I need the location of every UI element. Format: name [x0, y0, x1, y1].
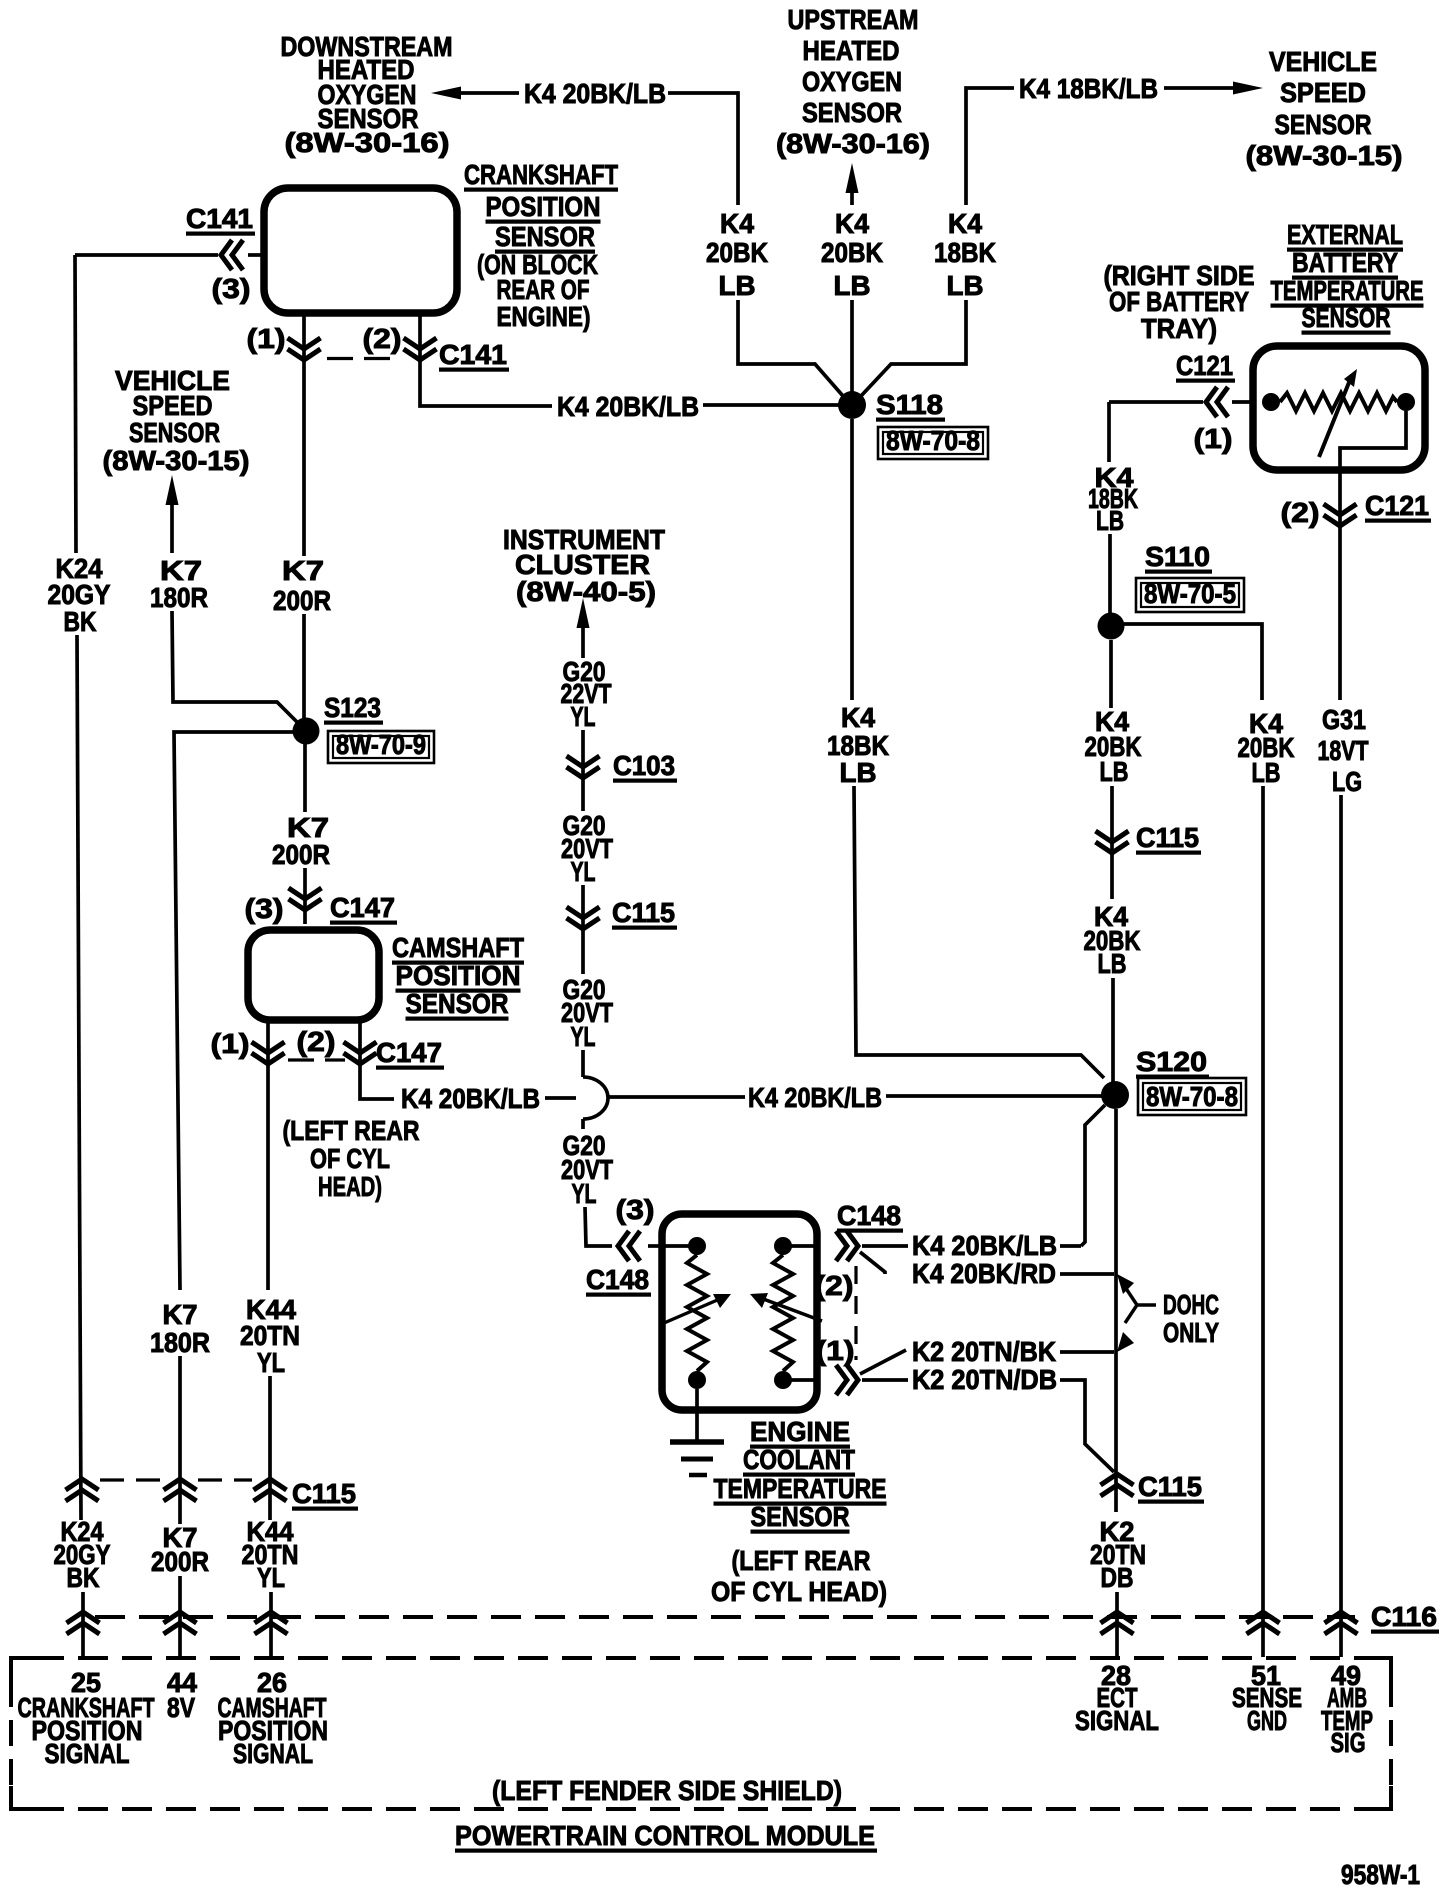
- svg-text:K2 20TN/BK: K2 20TN/BK: [912, 1336, 1056, 1367]
- wire ECT row2 diagonal: [860, 1252, 885, 1274]
- wire batt temp left: [1109, 400, 1203, 404]
- wire K44 20TN YL to C115: [268, 1376, 272, 1520]
- svg-text:18VT: 18VT: [1318, 735, 1369, 766]
- label K7 200R lower: [151, 1522, 209, 1577]
- svg-text:SIGNAL: SIGNAL: [233, 1738, 313, 1769]
- svg-text:POSITION: POSITION: [486, 191, 601, 222]
- ECT terminal top-right: [774, 1237, 792, 1255]
- external battery temperature sensor body: [1253, 346, 1425, 470]
- svg-text:C115: C115: [292, 1478, 356, 1509]
- thermistor arrow (battery sensor): [1319, 369, 1357, 457]
- svg-text:K4 20BK/LB: K4 20BK/LB: [401, 1083, 540, 1114]
- wire G20 to C103: [581, 730, 585, 811]
- svg-text:LB: LB: [840, 757, 877, 788]
- label G31 18VT LG upper: [1318, 704, 1369, 797]
- splice S123: [293, 718, 320, 745]
- wire upstream column into splice S118: [850, 300, 854, 393]
- label K24 20GY BK lower: [54, 1516, 111, 1593]
- reference box 8W-70-8 (S118): [878, 425, 988, 459]
- label G20 20VT YL (2): [561, 974, 613, 1052]
- svg-text:K4: K4: [720, 208, 754, 239]
- svg-text:958W-1: 958W-1: [1341, 1859, 1420, 1890]
- svg-text:K4 20BK/RD: K4 20BK/RD: [912, 1258, 1056, 1289]
- svg-text:GND: GND: [1247, 1705, 1287, 1736]
- svg-text:8W-70-8: 8W-70-8: [1146, 1081, 1238, 1112]
- svg-text:(3): (3): [616, 1194, 655, 1225]
- svg-text:20BK: 20BK: [821, 237, 883, 268]
- engine coolant temperature sensor body: [662, 1214, 817, 1410]
- connector C115 chevrons (K7): [164, 1479, 197, 1501]
- svg-text:(8W-30-15): (8W-30-15): [103, 445, 250, 476]
- svg-text:BK: BK: [64, 606, 97, 637]
- svg-text:K2 20TN/DB: K2 20TN/DB: [912, 1364, 1057, 1395]
- connector C148 pin 3 chevrons: [618, 1231, 640, 1261]
- svg-text:180R: 180R: [150, 1327, 210, 1358]
- battery sensor terminal right: [1397, 393, 1415, 411]
- svg-text:LB: LB: [1252, 757, 1281, 788]
- svg-text:BK: BK: [67, 1562, 100, 1593]
- connector C103 chevrons: [567, 756, 600, 778]
- svg-text:C141: C141: [439, 339, 507, 370]
- wire K7 180R down from S123: [174, 732, 293, 1290]
- svg-text:(1): (1): [1194, 423, 1233, 454]
- svg-text:SENSOR: SENSOR: [495, 221, 595, 252]
- svg-text:ENGINE: ENGINE: [750, 1416, 850, 1447]
- wire K4 20BK/LB downstream vertical: [668, 93, 738, 205]
- connector C116 chevrons (K24): [67, 1612, 100, 1634]
- svg-text:CAMSHAFT: CAMSHAFT: [392, 932, 524, 963]
- svg-text:200R: 200R: [272, 839, 330, 870]
- wire S120 down (DOHC line): [1114, 1109, 1118, 1512]
- wire K4 20BK/LB mid segment 2: [608, 1095, 745, 1099]
- svg-text:180R: 180R: [150, 582, 208, 613]
- dashed connector line C116: [95, 1615, 1355, 1619]
- svg-text:YL: YL: [572, 1178, 597, 1209]
- wire G20 22VT YL upper: [581, 627, 585, 658]
- label crankshaft position sensor title: [464, 159, 618, 332]
- wire K24 to C116: [81, 1592, 85, 1657]
- dashed link between C147 pins: [288, 1058, 345, 1061]
- wire K4 20BK LB to C115 (S110 col): [1110, 786, 1114, 899]
- connector C121 pin 1 chevrons: [1206, 387, 1228, 417]
- connector C147 pin 2 chevrons: [344, 1042, 377, 1064]
- svg-text:TEMPERATURE: TEMPERATURE: [714, 1473, 887, 1504]
- connector C116 chevrons (K44): [255, 1612, 288, 1634]
- svg-text:DOHC: DOHC: [1163, 1289, 1219, 1320]
- wire ECT row1 right seg: [1060, 1244, 1081, 1248]
- wire K4 18BK/LB vertical: [966, 88, 1014, 205]
- svg-text:G31: G31: [1322, 704, 1366, 735]
- svg-text:(8W-30-15): (8W-30-15): [1246, 140, 1403, 171]
- svg-text:8W-70-5: 8W-70-5: [1144, 578, 1236, 609]
- ground symbol: [670, 1442, 724, 1475]
- svg-text:LB: LB: [947, 270, 984, 301]
- svg-text:(8W-30-16): (8W-30-16): [776, 128, 930, 159]
- svg-text:8V: 8V: [167, 1692, 195, 1723]
- svg-text:K4 20BK/LB: K4 20BK/LB: [748, 1082, 882, 1113]
- svg-text:K4 20BK/LB: K4 20BK/LB: [524, 78, 666, 109]
- svg-text:(LEFT REAR: (LEFT REAR: [732, 1545, 871, 1576]
- svg-text:C121: C121: [1176, 350, 1233, 381]
- label K4 20BK LB (above S120): [1084, 901, 1141, 979]
- wire ECT row1 left seg: [862, 1244, 908, 1248]
- wire ECT internal top-right: [791, 1244, 817, 1248]
- svg-text:HEAD): HEAD): [318, 1171, 382, 1202]
- wire ECT internal bottom-right: [791, 1378, 817, 1382]
- svg-text:SENSOR: SENSOR: [129, 417, 220, 448]
- svg-text:(8W-30-16): (8W-30-16): [285, 127, 450, 158]
- battery sensor terminal left: [1262, 393, 1280, 411]
- svg-text:S110: S110: [1145, 541, 1210, 572]
- label downstream heated oxygen sensor: [281, 31, 453, 158]
- svg-text:SENSOR: SENSOR: [406, 988, 509, 1019]
- svg-text:8W-70-9: 8W-70-9: [336, 729, 426, 760]
- wire K7 200R below S123: [303, 744, 307, 812]
- wire into ECT box pin 3: [648, 1244, 662, 1248]
- connector C141 pin 1 chevrons: [288, 338, 321, 360]
- svg-text:OF CYL HEAD): OF CYL HEAD): [711, 1576, 887, 1607]
- label G20 20VT YL (1): [561, 810, 613, 887]
- svg-text:K4: K4: [948, 208, 982, 239]
- label K44 20TN YL upper: [240, 1294, 300, 1378]
- label K7 180R lower: [150, 1299, 210, 1358]
- label K4 20BK LB column middle: [821, 208, 883, 301]
- wire K44 to C116: [269, 1592, 273, 1657]
- wire G20 hop arc: [583, 1077, 608, 1119]
- svg-text:(2): (2): [1281, 497, 1320, 528]
- svg-text:EXTERNAL: EXTERNAL: [1287, 219, 1403, 250]
- svg-text:(LEFT FENDER SIDE SHIELD): (LEFT FENDER SIDE SHIELD): [492, 1775, 842, 1806]
- wire ECT row4 left seg: [862, 1378, 908, 1382]
- thermistor element left (ECT): [687, 1255, 707, 1371]
- svg-text:SENSOR: SENSOR: [1302, 302, 1391, 333]
- svg-text:K4: K4: [841, 702, 875, 733]
- connector C115 chevrons (G20): [567, 907, 600, 929]
- label K7 200R below S123: [272, 812, 330, 870]
- svg-text:(1): (1): [816, 1335, 855, 1366]
- svg-text:S120: S120: [1136, 1046, 1207, 1077]
- label PCM pin 51 sense gnd: [1232, 1660, 1302, 1736]
- arrow to downstream O2 sensor: [431, 87, 461, 100]
- svg-text:S123: S123: [324, 692, 381, 723]
- connector C121 pin 2 chevrons: [1324, 504, 1357, 526]
- svg-text:K4 18BK/LB: K4 18BK/LB: [1019, 73, 1158, 104]
- svg-text:VEHICLE: VEHICLE: [1269, 46, 1377, 77]
- wire ECT row3 right seg: [1060, 1350, 1114, 1354]
- svg-text:SIGNAL: SIGNAL: [45, 1738, 130, 1769]
- wire batt pin2 stub: [1338, 466, 1342, 700]
- svg-text:COOLANT: COOLANT: [743, 1444, 855, 1475]
- thermistor element right (ECT): [773, 1255, 793, 1371]
- wire G20 above hop: [581, 1050, 585, 1077]
- reference box 8W-70-9 (S123): [328, 729, 434, 763]
- wire ECT row3 diagonal: [860, 1350, 906, 1374]
- svg-text:C115: C115: [1138, 1471, 1202, 1502]
- camshaft position sensor body: [248, 930, 379, 1020]
- label PCM pin 44 8V: [167, 1667, 197, 1723]
- label PCM pin 26 camshaft position signal: [218, 1667, 329, 1769]
- wire cam pin2 stub: [360, 1020, 394, 1099]
- DOHC ONLY callout arrows: [1125, 1287, 1156, 1323]
- label left rear of cyl head (camshaft): [283, 1115, 420, 1202]
- label PCM pin 25 crankshaft position signal: [18, 1667, 155, 1769]
- wire K7 to C116: [178, 1576, 182, 1657]
- wire G31 18VT LG to C116: [1339, 795, 1343, 1657]
- svg-text:200R: 200R: [151, 1546, 209, 1577]
- thermistor element (battery sensor): [1280, 393, 1397, 411]
- connector C147 pin 3 chevrons: [289, 888, 322, 910]
- dashed pin2 line (ECT): [854, 1266, 857, 1360]
- connector C116 chevrons (K7): [164, 1612, 197, 1634]
- svg-text:LB: LB: [1100, 756, 1129, 787]
- reference box 8W-70-5 (S110): [1136, 578, 1244, 612]
- svg-text:(LEFT REAR: (LEFT REAR: [283, 1115, 420, 1146]
- label left rear of cyl head (ECT): [711, 1545, 887, 1607]
- wire battery sensor pin2 internal: [1340, 411, 1406, 466]
- ECT terminal bottom-left: [688, 1371, 706, 1389]
- wire K4 18BK LB to splice S120: [854, 786, 1104, 1078]
- wire K7 200R into splice S123: [302, 614, 306, 718]
- wire batt pin1 from box: [1232, 400, 1256, 404]
- wire into splice S110: [1108, 534, 1112, 614]
- svg-text:K4 20BK/LB: K4 20BK/LB: [557, 391, 699, 422]
- svg-text:ONLY: ONLY: [1163, 1317, 1219, 1348]
- wire crank pin1 stub: [302, 313, 306, 556]
- svg-text:LG: LG: [1332, 766, 1362, 797]
- label K4 18BK LB (below S118): [827, 702, 889, 788]
- dashed link C115 row a: [100, 1478, 162, 1481]
- crankshaft position sensor body: [264, 188, 457, 313]
- svg-text:YL: YL: [571, 701, 596, 732]
- svg-text:POSITION: POSITION: [396, 960, 521, 991]
- label engine coolant temperature sensor title: [714, 1416, 887, 1534]
- wire K4 20BK LB below S110: [1109, 640, 1113, 708]
- label K4 20BK LB column left: [706, 208, 768, 301]
- svg-text:(8W-40-5): (8W-40-5): [516, 576, 656, 607]
- label K4 18BK LB (S110): [1088, 462, 1138, 536]
- svg-text:C103: C103: [613, 750, 675, 781]
- label G20 22VT YL: [561, 656, 612, 732]
- wire K7 200R to C147: [303, 868, 307, 924]
- label PCM pin 49 amb temp sig: [1321, 1660, 1373, 1758]
- connector C148 pin 2 chevrons: [836, 1231, 858, 1261]
- label vehicle speed sensor top-right: [1246, 46, 1403, 171]
- svg-text:C115: C115: [612, 897, 675, 928]
- svg-text:YL: YL: [257, 1562, 285, 1593]
- svg-text:K7: K7: [163, 1299, 198, 1330]
- label K24 20GY BK upper: [48, 553, 111, 637]
- arrow to upstream O2 sensor: [846, 163, 859, 193]
- label upstream heated oxygen sensor: [776, 4, 930, 159]
- label instrument cluster: [503, 524, 665, 607]
- wire ECT row4 to C115: [1060, 1380, 1114, 1472]
- wire S110 branch right to C116: [1124, 624, 1262, 700]
- wire K24 20GY BK left vertical upper: [75, 255, 76, 553]
- wire into splice S120: [1111, 978, 1115, 1082]
- wire crank pin3 from box: [248, 253, 261, 257]
- svg-text:YL: YL: [571, 856, 596, 887]
- svg-text:CRANKSHAFT: CRANKSHAFT: [464, 159, 618, 190]
- connector C141 pin 3 chevrons: [221, 240, 243, 270]
- svg-text:(3): (3): [245, 893, 284, 924]
- svg-text:K4 20BK/LB: K4 20BK/LB: [912, 1230, 1057, 1261]
- svg-text:8W-70-8: 8W-70-8: [886, 425, 980, 456]
- svg-text:POWERTRAIN CONTROL MODULE: POWERTRAIN CONTROL MODULE: [455, 1820, 875, 1851]
- wire K4 20BK/LB mid segment: [545, 1096, 576, 1100]
- splice S120: [1101, 1081, 1129, 1109]
- wire crank pin2 stub: [420, 313, 552, 406]
- svg-text:OF CYL: OF CYL: [310, 1143, 390, 1174]
- wire K24 to left edge: [75, 253, 218, 257]
- ECT terminal top-left: [688, 1237, 706, 1255]
- svg-text:SIGNAL: SIGNAL: [1075, 1705, 1159, 1736]
- powertrain control module dashed box: [11, 1658, 1391, 1809]
- wire upstream O2 vertical upper: [850, 192, 854, 205]
- svg-text:C148: C148: [837, 1200, 901, 1231]
- wire K4 20BK/LB into splice S118: [703, 403, 839, 407]
- wire G20 below hop: [581, 1119, 585, 1129]
- svg-text:200R: 200R: [273, 585, 331, 616]
- wire K2 20TN DB to C116: [1115, 1592, 1119, 1657]
- label camshaft position sensor title: [392, 932, 524, 1021]
- svg-text:SENSOR: SENSOR: [1275, 109, 1372, 140]
- svg-text:K7: K7: [282, 555, 324, 586]
- svg-text:ENGINE): ENGINE): [497, 301, 591, 332]
- wire K4 20BK LB right branch lower: [1261, 786, 1265, 1657]
- wire ECT internal top-left: [662, 1244, 689, 1248]
- wire K4 18BK/LB to VSS (right seg): [1164, 86, 1234, 90]
- connector C141 pin 2 chevrons: [404, 338, 437, 360]
- svg-text:(2): (2): [815, 1270, 854, 1301]
- svg-text:SENSOR: SENSOR: [802, 97, 902, 128]
- connector C116 chevrons (G31): [1325, 1612, 1358, 1634]
- svg-text:18BK: 18BK: [934, 237, 996, 268]
- svg-text:S118: S118: [876, 389, 943, 420]
- svg-text:C115: C115: [1136, 822, 1199, 853]
- svg-text:C121: C121: [1365, 490, 1429, 521]
- arrow to vehicle speed sensor left: [166, 475, 179, 505]
- label K44 20TN YL lower: [242, 1516, 299, 1593]
- wire K24 20GY BK left vertical lower: [77, 635, 81, 1520]
- svg-text:LB: LB: [834, 270, 871, 301]
- label K7 200R upper: [273, 555, 331, 616]
- wire cam pin1 stub: [266, 1020, 270, 1290]
- wire K4 18BK LB below S118: [850, 419, 854, 700]
- label K4 20BK LB (right branch): [1238, 708, 1295, 788]
- dashed link between C141 pins: [327, 357, 398, 360]
- label K4 18BK LB column right: [934, 208, 996, 301]
- connector C115 chevrons (K24): [66, 1479, 99, 1501]
- connector C116 chevrons (K4): [1247, 1612, 1280, 1634]
- label K4 20BK LB (below S110): [1085, 706, 1142, 787]
- wire ECT ground stem: [695, 1389, 699, 1440]
- svg-text:BATTERY: BATTERY: [1292, 247, 1398, 278]
- wire K7 180R upper: [170, 504, 174, 553]
- label right side of battery tray: [1104, 260, 1255, 344]
- svg-text:C147: C147: [376, 1037, 442, 1068]
- connector C148 pin 1 chevrons: [836, 1365, 858, 1395]
- svg-text:TRAY): TRAY): [1141, 313, 1217, 344]
- connector C115 chevrons (S110 col): [1096, 831, 1129, 853]
- ECT terminal bottom-right: [774, 1371, 792, 1389]
- label G20 20VT YL (3): [561, 1130, 613, 1209]
- svg-text:(1): (1): [211, 1028, 250, 1059]
- label K2 20TN DB: [1090, 1516, 1146, 1593]
- wire K4 18BK LB from batt pin1: [1107, 402, 1111, 462]
- svg-text:SIG: SIG: [1331, 1727, 1366, 1758]
- wire K4 20BK/LB into splice S120: [886, 1094, 1102, 1098]
- connector C147 pin 1 chevrons: [252, 1042, 285, 1064]
- wire VSS column into splice S118: [861, 300, 966, 396]
- label K7 180R upper: [150, 555, 208, 613]
- connector C115 chevrons (DOHC col): [1101, 1474, 1134, 1496]
- svg-text:UPSTREAM: UPSTREAM: [788, 4, 919, 35]
- wire ECT row2 right seg: [1060, 1272, 1114, 1276]
- wire K4 20BK/LB to downstream O2 (left seg): [459, 91, 519, 95]
- dashed link C115 row b: [198, 1478, 252, 1481]
- svg-text:SENSOR: SENSOR: [751, 1501, 850, 1532]
- wire downstream column into splice S118: [738, 300, 843, 396]
- thermistor arrow left (ECT): [664, 1294, 731, 1323]
- svg-text:YL: YL: [257, 1347, 285, 1378]
- svg-text:C141: C141: [186, 203, 253, 234]
- svg-text:K4: K4: [835, 208, 869, 239]
- svg-text:C116: C116: [1371, 1601, 1437, 1632]
- svg-text:20BK: 20BK: [706, 237, 768, 268]
- thermistor arrow right (ECT): [750, 1293, 822, 1321]
- arrow to instrument cluster: [577, 598, 590, 628]
- connector C116 chevrons (K2): [1101, 1612, 1134, 1634]
- svg-text:YL: YL: [571, 1021, 596, 1052]
- svg-text:(2): (2): [363, 323, 402, 354]
- svg-text:(2): (2): [297, 1026, 336, 1057]
- svg-text:(3): (3): [212, 273, 251, 304]
- svg-text:C148: C148: [586, 1264, 649, 1295]
- splice S110: [1098, 613, 1125, 640]
- reference box 8W-70-8 (S120): [1138, 1078, 1246, 1115]
- wire K7 180R to splice S123: [172, 611, 297, 722]
- svg-text:SPEED: SPEED: [1280, 77, 1366, 108]
- arrow to vehicle speed sensor: [1233, 82, 1263, 95]
- wire K7 180R lower to C115: [178, 1356, 182, 1524]
- svg-text:C147: C147: [330, 892, 395, 923]
- connector C115 chevrons (K44): [254, 1479, 287, 1501]
- svg-text:OXYGEN: OXYGEN: [802, 66, 902, 97]
- svg-text:DB: DB: [1101, 1562, 1134, 1593]
- svg-text:LB: LB: [1098, 948, 1127, 979]
- wire S120 down-left branch to ECT row1: [1081, 1105, 1105, 1246]
- splice S118: [838, 391, 866, 419]
- wire G20 to ECT pin 3: [585, 1207, 612, 1246]
- wire G20 to C115: [581, 885, 585, 974]
- svg-text:HEATED: HEATED: [803, 35, 900, 66]
- label vehicle speed sensor left: [103, 365, 250, 476]
- svg-text:LB: LB: [1096, 505, 1124, 536]
- label PCM pin 28 ECT signal: [1075, 1660, 1159, 1736]
- svg-text:LB: LB: [719, 270, 756, 301]
- svg-text:(1): (1): [247, 323, 286, 354]
- label DOHC ONLY: [1163, 1289, 1219, 1348]
- label external battery temperature sensor title: [1271, 219, 1424, 335]
